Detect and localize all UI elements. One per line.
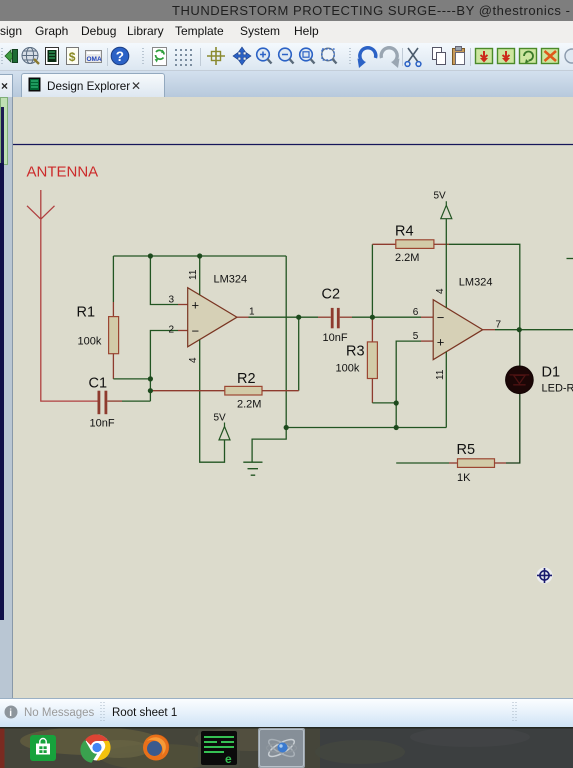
svg-text:LED-RED: LED-RED (542, 383, 573, 395)
pin 11 stub U2 (435, 352, 447, 428)
pin 2 label (169, 324, 175, 335)
canvas area (0, 97, 573, 698)
svg-text:No Messages: No Messages (24, 707, 95, 719)
resistor R5 (396, 459, 506, 468)
icon: origin (207, 47, 225, 65)
icon: zoom in (257, 48, 270, 61)
icon: partial (565, 49, 573, 63)
pin 3 label (169, 295, 175, 306)
wire bottom rail (286, 427, 446, 429)
svg-text:−: − (437, 310, 445, 325)
label C2 (322, 287, 341, 303)
schematic svg (0, 97, 573, 698)
resistor R1 (109, 302, 119, 379)
svg-text:C2: C2 (322, 287, 341, 303)
svg-text:+: + (192, 298, 200, 313)
label R4 (395, 224, 414, 240)
icon: paste (453, 49, 465, 65)
antenna AE1 (27, 190, 55, 219)
svg-text:1K: 1K (457, 472, 471, 484)
label LM324 U2 (459, 277, 493, 289)
svg-text:5V: 5V (214, 413, 227, 424)
separators (107, 48, 109, 66)
svg-text:Root sheet 1: Root sheet 1 (112, 707, 177, 719)
wire R3 bottom to pin5 node (372, 402, 396, 404)
value LED-RED (542, 383, 573, 395)
svg-text:e: e (225, 752, 232, 766)
svg-text:R5: R5 (457, 442, 476, 458)
svg-text:$: $ (69, 50, 76, 64)
toolbar (0, 43, 573, 71)
svg-text:2.2M: 2.2M (237, 399, 261, 411)
wire R1 bottom to node (113, 378, 150, 380)
icon: globe find (22, 48, 38, 64)
pin 7 label (496, 320, 502, 331)
wire pin2 branch down to C1 node (150, 331, 187, 402)
icon: ERC (86, 51, 102, 63)
svg-text:10nF: 10nF (323, 332, 348, 344)
capacitor C2 (331, 308, 352, 328)
label C1 (89, 376, 108, 392)
pin 1 label (249, 307, 255, 318)
svg-text:100k: 100k (78, 336, 102, 348)
svg-text:100k: 100k (336, 363, 360, 375)
LED D1 (506, 366, 534, 394)
value 2.2M (237, 399, 261, 411)
svg-text:2.2M: 2.2M (395, 252, 419, 264)
op-amp U1:A LM324 (188, 288, 237, 347)
pin 6 label (413, 307, 419, 318)
icon: undo (360, 48, 376, 63)
svg-text:C1: C1 (89, 376, 108, 392)
icon: help (111, 47, 129, 65)
label D1 (542, 365, 561, 381)
label R1 (77, 305, 96, 321)
cursor crosshair (537, 567, 553, 583)
store icon (30, 735, 56, 761)
wire C2 to U2 pin6 (352, 316, 433, 318)
icon: block rotate (520, 49, 537, 64)
title bar (0, 0, 573, 21)
pin 11 stub U1 (188, 256, 200, 295)
ground (243, 256, 286, 475)
icon: block copy (476, 49, 493, 64)
svg-text:?: ? (116, 49, 124, 64)
icon: redo (381, 48, 397, 63)
wire stub right edge (567, 258, 573, 260)
svg-text:2: 2 (169, 324, 175, 335)
label R2 (237, 371, 256, 387)
svg-text:LM324: LM324 (459, 277, 493, 289)
junction dots (148, 253, 522, 430)
svg-text:4: 4 (188, 357, 199, 363)
icon: zoom area (322, 48, 335, 61)
resistor R3 (367, 317, 377, 403)
svg-text:R3: R3 (346, 344, 365, 360)
wire antenna to C1 (red) (41, 219, 98, 401)
svg-text:5: 5 (413, 331, 419, 342)
svg-text:R4: R4 (395, 224, 414, 240)
icon: export (5, 50, 14, 62)
label R5 (457, 442, 476, 458)
resistor R4 (396, 240, 449, 249)
pin 5 label (413, 331, 419, 342)
label R3 (346, 344, 365, 360)
pin 4 stub U2 with 5V (435, 219, 447, 308)
svg-text:7: 7 (496, 320, 502, 331)
taskbar (0, 727, 573, 768)
menu bar (0, 21, 573, 44)
wire top rail (113, 255, 286, 257)
wire U1 output (237, 316, 331, 318)
svg-text:LM324: LM324 (214, 274, 248, 286)
capacitor C1 (98, 391, 123, 415)
op-amp U1:B LM324 (433, 300, 483, 360)
svg-text:11: 11 (435, 369, 446, 380)
resistor R2 (150, 386, 298, 395)
value 100k R3 (336, 363, 360, 375)
wire output node down through D1 to R5 (506, 330, 520, 463)
grips (1, 48, 3, 66)
active app button (258, 728, 305, 768)
svg-text:OMA: OMA (87, 56, 102, 63)
power 5V left (214, 413, 231, 440)
svg-text:i: i (9, 708, 12, 719)
label LM324 U1 (214, 274, 248, 286)
svg-text:1: 1 (249, 307, 255, 318)
svg-text:11: 11 (188, 269, 199, 280)
sheet top border (13, 144, 573, 146)
chrome icon (84, 735, 110, 761)
svg-text:10nF: 10nF (90, 418, 115, 430)
icon: block move (498, 49, 515, 64)
icon: zoom all (300, 48, 313, 61)
svg-text:ANTENNA: ANTENNA (27, 164, 99, 181)
icon: copy (433, 48, 442, 60)
icon: schematic page (46, 48, 59, 65)
proteus e icon (198, 729, 240, 767)
tab row (0, 71, 573, 98)
svg-text:+: + (437, 335, 445, 350)
wire pin3 branch (150, 256, 187, 305)
firefox icon (143, 735, 169, 761)
value 1K (457, 472, 471, 484)
icon: grid (175, 49, 192, 66)
svg-text:3: 3 (169, 295, 175, 306)
value 2.2M R4 (395, 252, 419, 264)
svg-text:D1: D1 (542, 365, 561, 381)
value 100k (78, 336, 102, 348)
pin 4 stub U1 down to 5V (188, 340, 225, 463)
wire U2 output (483, 329, 573, 331)
wire output node down to R2 (298, 317, 300, 391)
svg-text:−: − (192, 323, 200, 338)
status bar (0, 698, 573, 728)
icon: pan (233, 47, 251, 65)
svg-text:R1: R1 (77, 305, 96, 321)
power 5V right (434, 191, 452, 219)
value 10nF (90, 418, 115, 430)
svg-text:R2: R2 (237, 371, 256, 387)
icon: BOM page (67, 48, 79, 65)
svg-text:6: 6 (413, 307, 419, 318)
wire rail down to R1 (112, 256, 114, 302)
svg-text:4: 4 (435, 288, 446, 294)
value 10nF C2 (323, 332, 348, 344)
wire node to R4 (372, 244, 395, 317)
label ANTENNA (27, 164, 99, 181)
wire C1 right to node (122, 400, 150, 402)
svg-text:5V: 5V (434, 191, 447, 202)
icon: redraw (153, 48, 167, 66)
icon: block delete (542, 49, 559, 64)
wire R4 to output node (449, 244, 520, 329)
icon: zoom out (279, 48, 292, 61)
icon: cut (408, 48, 418, 62)
wire pin5 branch (396, 341, 433, 427)
